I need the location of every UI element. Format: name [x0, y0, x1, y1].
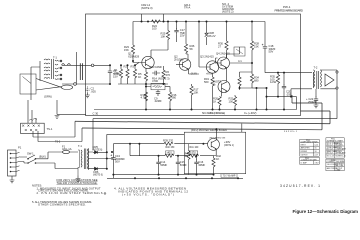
svg-text:34ZU517-REV. 1: 34ZU517-REV. 1: [280, 184, 320, 188]
svg-text:100: 100: [229, 99, 234, 103]
wire W2 left drop: [74, 121, 76, 137]
svg-text:NO. 2-13: NO. 2-13: [327, 155, 334, 157]
svg-text:P1: P1: [18, 146, 22, 150]
wire TS down feeds: [33, 131, 38, 142]
svg-text:TR-A: TR-A: [184, 5, 190, 9]
transistor Q4: [218, 57, 230, 69]
resistor R3: [134, 65, 136, 69]
wire W2 run: [75, 111, 330, 124]
svg-text:(NOTE 2): (NOTE 2): [222, 10, 234, 14]
wire cable diag 2: [36, 87, 61, 90]
wire Q1 base: [135, 63, 146, 66]
svg-text:Q4 2N1415: Q4 2N1415: [216, 52, 230, 56]
wire Q2 collector: [187, 54, 189, 60]
wire W3 run: [82, 95, 322, 130]
P1 pins: [10, 153, 12, 173]
voltage box +41V: [166, 151, 175, 154]
resistor R39: [212, 156, 214, 159]
wire switch to fuse: [36, 152, 79, 169]
wire rail left: [130, 155, 165, 157]
svg-text:R3: R3: [131, 65, 135, 69]
svg-text:(NOTE 1): (NOTE 1): [224, 145, 234, 147]
svg-text:2N1380: 2N1380: [174, 57, 184, 61]
svg-text:1/2W: 1/2W: [270, 80, 277, 84]
svg-text:TO 7-B AMP: TO 7-B AMP: [223, 175, 236, 178]
resistor R17: [191, 84, 193, 86]
svg-text:3AG-1A: 3AG-1A: [62, 147, 72, 151]
capacitor C9 under box: [156, 90, 160, 96]
resistor R43: [188, 144, 190, 151]
capacitor C2 shield: [86, 87, 90, 94]
resistor R32: [251, 63, 253, 74]
TS-1 box: [21, 123, 45, 133]
wire gnd left run: [57, 100, 86, 114]
wire X1 emitter to rail: [214, 149, 217, 156]
resistor R25: [167, 22, 169, 31]
resistor R16: [169, 87, 171, 93]
svg-text:Q3 2N1415: Q3 2N1415: [200, 55, 214, 59]
zener CR8: [205, 33, 209, 37]
svg-text:+8.6V: +8.6V: [206, 73, 213, 76]
feedback box R14 R15: [151, 83, 165, 90]
230v underline: [57, 182, 98, 185]
wire T2 primary top: [265, 72, 312, 74]
fuse F1: [62, 150, 78, 153]
svg-text:OUTPUT: OUTPUT: [301, 154, 308, 156]
svg-text:560: 560: [204, 80, 209, 84]
wire caps bottom rail: [113, 174, 213, 176]
wire loops above TS: [29, 118, 37, 120]
wire T2 primary bottom: [291, 89, 312, 97]
svg-text:R39 270: R39 270: [163, 139, 174, 143]
transformer T1 windings: [44, 59, 58, 80]
wire C19 node vertical: [112, 144, 114, 178]
wire B+ bus: [133, 21, 265, 23]
wire Q2 base: [176, 64, 183, 66]
wire +30V rail: [94, 109, 297, 111]
wire W2 into PW-2: [241, 124, 243, 133]
svg-text:CONNECTOR VIEW: CONNECTOR VIEW: [301, 159, 317, 161]
svg-text:7-8-9: 7-8-9: [315, 162, 319, 164]
svg-text:(BLK): (BLK): [39, 155, 46, 159]
transformer T2: [314, 70, 322, 89]
resistor R38 top: [164, 142, 173, 145]
node out junctions: [256, 87, 258, 89]
wire T3 core bottom: [77, 167, 79, 175]
wire PSU bottom rail: [107, 177, 243, 179]
transistor Q3: [206, 61, 218, 73]
capacitor C19 filter: [111, 154, 116, 162]
svg-text:R2: R2: [124, 65, 128, 69]
svg-text:16: 16: [315, 148, 317, 150]
resistor R36 series: [165, 154, 174, 157]
resistor R12: [145, 91, 147, 92]
node speaker terms: [336, 71, 338, 73]
ground P1: [11, 176, 13, 180]
svg-text:(NOTE 3): (NOTE 3): [158, 77, 170, 81]
svg-text:CR5: CR5: [93, 145, 99, 149]
wire Q4-Q5: [222, 47, 240, 97]
node bus junctions: [141, 21, 143, 23]
capacitor C18: [264, 22, 266, 46]
resistor R1: [120, 65, 122, 69]
wire out node: [252, 87, 267, 89]
TS-1 terminals row2: [25, 129, 37, 131]
capacitor C18C: [196, 156, 198, 160]
wire right edge drop: [296, 97, 298, 110]
wire fb right: [165, 86, 170, 88]
wire out lower: [267, 88, 297, 110]
svg-text:30MF: 30MF: [198, 163, 205, 167]
wire input loops: [62, 64, 71, 66]
svg-text:BAL. LINE: BAL. LINE: [335, 164, 344, 167]
resistor R21: [219, 96, 221, 99]
cable oval: [61, 85, 72, 89]
capacitor C3 coupling: [152, 71, 160, 75]
svg-text:4.1: 4.1: [238, 59, 242, 63]
svg-text:15K: 15K: [254, 44, 259, 48]
svg-text:1K: 1K: [213, 99, 216, 103]
wire Q1 collector up: [151, 50, 168, 58]
wire T1 taps right: [58, 61, 62, 79]
svg-text:Figure 12—Schematic Diagram: Figure 12—Schematic Diagram: [293, 209, 359, 214]
resistor R31: [240, 72, 253, 77]
diode CR6: [93, 167, 106, 170]
node input terminal: [91, 64, 94, 67]
ground T3: [77, 176, 79, 179]
svg-text:18: 18: [315, 151, 317, 153]
PW-2 board outline: [184, 132, 245, 174]
svg-text:1K: 1K: [138, 75, 141, 79]
svg-text:100: 100: [152, 27, 157, 31]
svg-text:150: 150: [171, 147, 176, 149]
node input junctions: [109, 64, 111, 66]
wire TS to W3: [38, 141, 82, 143]
svg-text:LT. AMP: LT. AMP: [301, 161, 308, 164]
svg-text:15V: 15V: [180, 34, 185, 38]
svg-text:.039: .039: [286, 92, 292, 96]
wire T2 sec to terminals: [320, 70, 337, 89]
PW-1 board outline: [86, 14, 301, 116]
svg-text:2-WAY: 2-WAY: [335, 169, 341, 172]
transistor Q1: [142, 56, 154, 68]
svg-text:2): 2): [213, 82, 215, 86]
svg-text:(NOTE 3): (NOTE 3): [141, 6, 153, 10]
svg-text:PRINTED WIRING BOARD: PRINTED WIRING BOARD: [275, 8, 304, 12]
resistor R6: [163, 66, 165, 70]
wire W1 left drop: [92, 119, 94, 150]
svg-text:T-1: T-1: [53, 56, 57, 60]
wire R38 feed: [113, 143, 164, 145]
ground input shield: [85, 93, 90, 98]
svg-text:5K: 5K: [190, 47, 193, 51]
svg-text:OTHER COMMENTS SPECIFIED.: OTHER COMMENTS SPECIFIED.: [38, 202, 86, 206]
resistor R26: [185, 22, 187, 44]
capacitor C18A: [158, 156, 160, 160]
svg-text:4.7K: 4.7K: [141, 96, 147, 100]
choke L2 bypass verticals: [142, 14, 164, 22]
svg-text:50V: 50V: [115, 160, 120, 164]
svg-text:(GRN): (GRN): [44, 95, 52, 99]
svg-text:⊕: ⊕: [104, 192, 107, 196]
resistor R28: [251, 22, 253, 42]
resistor R24 on bus: [152, 20, 161, 23]
svg-text:SCHEMATIC CHART: SCHEMATIC CHART: [327, 139, 343, 142]
jack boundary box: [20, 74, 36, 94]
transformer T3: [78, 149, 89, 170]
svg-text:56.2V: 56.2V: [209, 34, 216, 38]
wire gnd rail preamp: [118, 83, 168, 85]
wire T3 secondary taps: [89, 152, 107, 169]
svg-text:10K: 10K: [161, 34, 166, 38]
wire Q4 out right: [230, 58, 253, 63]
svg-text:.005: .005: [91, 89, 97, 93]
capacitor C18B: [177, 156, 179, 160]
wire X1 collector: [215, 129, 217, 140]
svg-text:10K: 10K: [194, 90, 199, 94]
wire T1 top to left vertical: [31, 61, 40, 100]
wire cable diag 1: [36, 79, 61, 88]
svg-text:2. P/N 40-50 OHM STRAP TERMINA: 2. P/N 40-50 OHM STRAP TERMINALS: [37, 191, 103, 195]
resistor R33: [234, 95, 236, 97]
node T1 tap circles: [60, 60, 62, 62]
speaker triangle: [325, 74, 334, 86]
svg-text:50V: 50V: [269, 50, 274, 54]
svg-text:2-17: 2-17: [315, 154, 318, 156]
svg-text:680: 680: [172, 96, 177, 100]
resistor R19: [212, 73, 214, 77]
svg-text:THE 230 V INSTRUCTION PAGE.: THE 230 V INSTRUCTION PAGE.: [57, 181, 98, 185]
svg-text:470: 470: [166, 73, 171, 77]
resistor R30: [226, 22, 228, 42]
node rail junctions: [191, 109, 193, 111]
svg-text:(PW-2) PRINTED WIRING BOARD: (PW-2) PRINTED WIRING BOARD: [191, 129, 227, 132]
table fuse chart: [326, 159, 344, 171]
capacitor C1: [108, 65, 112, 84]
wire TS feeds from above: [28, 100, 36, 123]
wire rail drop b: [138, 144, 140, 156]
transistor X1: [208, 139, 220, 151]
svg-text:SW-1: SW-1: [27, 152, 34, 156]
ground node57: [55, 116, 60, 119]
wire rect join raw B+: [106, 134, 113, 168]
svg-text:+37V: +37V: [190, 153, 196, 155]
svg-text:C 30: C 30: [93, 112, 99, 116]
node fb junctions: [145, 86, 147, 88]
resistor R35: [277, 73, 279, 75]
wire W4 raw B+ run: [107, 133, 185, 135]
connector P1 box: [8, 150, 17, 176]
svg-text:C+ (+30V): C+ (+30V): [244, 111, 257, 115]
svg-text:TS-1: TS-1: [47, 127, 53, 131]
node input terminal 2: [74, 83, 77, 86]
resistor R5 emitter: [145, 68, 147, 72]
voltage box texts: [167, 153, 236, 178]
node psu junctions: [111, 151, 113, 153]
wire Q2 to Q3: [189, 69, 199, 74]
ground C22: [314, 105, 319, 108]
capacitor C20: [283, 73, 285, 85]
svg-text:UPPER ARM: UPPER ARM: [335, 152, 346, 155]
svg-text:CR6: CR6: [93, 170, 99, 174]
wire Q3 base: [199, 22, 210, 68]
svg-text:27: 27: [218, 44, 221, 48]
connector bars: [80, 63, 82, 80]
svg-text:250MF: 250MF: [308, 100, 317, 104]
resistor R37 series: [190, 154, 199, 157]
svg-text:+30V: +30V: [224, 140, 231, 144]
resistor R2: [127, 65, 129, 69]
svg-text:(NOTE 6): (NOTE 6): [93, 150, 103, 152]
P1 contacts: [11, 154, 17, 172]
svg-text:680: 680: [254, 78, 259, 82]
svg-text:.02MF: .02MF: [154, 99, 162, 103]
svg-text:0-15: 0-15: [315, 144, 318, 146]
svg-text:TS-2: TS-2: [55, 141, 61, 144]
capacitor C22 out: [315, 89, 317, 97]
voltage box +37V: [189, 151, 198, 154]
transistor Q2: [179, 59, 191, 71]
wire TS to W2: [33, 136, 75, 138]
svg-text:T-1: T-1: [78, 144, 82, 148]
svg-text:X29A829: X29A829: [128, 54, 140, 58]
svg-text:-16.6V: -16.6V: [190, 73, 197, 76]
table voltage chart2: [300, 157, 319, 164]
svg-text:4700: 4700: [152, 79, 158, 83]
svg-text:T-2: T-2: [314, 66, 318, 70]
svg-text:NO. 4 WIRE (ORANGE): NO. 4 WIRE (ORANGE): [202, 111, 225, 115]
thermistor box: [234, 47, 245, 56]
svg-text:50MF: 50MF: [160, 163, 167, 167]
svg-text:100: 100: [195, 147, 200, 149]
table voltage chart: [300, 139, 319, 156]
svg-text:34ZU5-1: 34ZU5-1: [284, 131, 298, 133]
svg-text:1K: 1K: [216, 157, 219, 161]
wire P1 to switch: [20, 157, 28, 163]
svg-text:DRIVER: DRIVER: [301, 151, 308, 153]
svg-text:(MOUNTED ON: (MOUNTED ON: [210, 137, 226, 139]
svg-text:(NOTE 6): (NOTE 6): [93, 175, 103, 177]
switch SW1: [27, 155, 36, 164]
transistor Q5: [218, 81, 230, 93]
wire W3 left drop: [81, 128, 83, 142]
svg-text:C3 10MF: C3 10MF: [151, 65, 162, 69]
svg-text:(+30 VOLTS, "DONALD"): (+30 VOLTS, "DONALD"): [122, 193, 174, 197]
capacitor C17a: [176, 22, 178, 29]
svg-text:SCREW 2-10: SCREW 2-10: [335, 155, 345, 157]
TS-1 terminals row1: [22, 125, 40, 127]
wire W1 feedback run: [93, 88, 337, 119]
resistor R4 bias: [131, 45, 134, 54]
wire x256 drop: [256, 88, 258, 110]
wire rail drop a: [129, 144, 131, 156]
svg-text:15K: 15K: [124, 48, 129, 52]
svg-text:15V: 15V: [113, 75, 118, 79]
chassis line: [75, 52, 77, 85]
svg-text:COMPONENT VIEWS: COMPONENT VIEWS: [301, 141, 319, 143]
wire input upper: [62, 65, 110, 84]
label box 7B: [221, 174, 237, 178]
table parts chart: [326, 138, 344, 158]
diode CR5: [93, 151, 106, 154]
wire bus left drop: [132, 22, 134, 46]
svg-text:+41V: +41V: [167, 153, 173, 155]
wire Q3 collector: [215, 58, 221, 63]
svg-text:AMPLIFIER: AMPLIFIER: [301, 147, 311, 150]
svg-text:50MF: 50MF: [180, 163, 187, 167]
svg-text:INPUT: INPUT: [301, 144, 306, 146]
wire fb left: [146, 84, 151, 110]
jack inner diagonal: [23, 77, 32, 84]
